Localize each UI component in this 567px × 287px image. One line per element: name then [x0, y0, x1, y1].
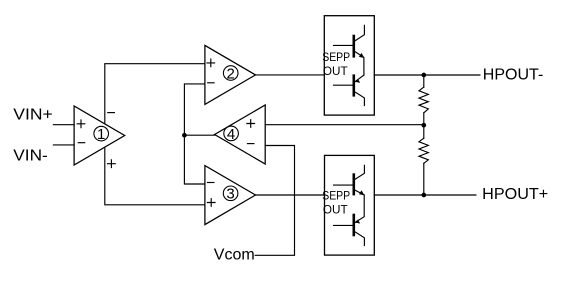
circled number 2 circle: [223, 66, 238, 81]
transistor Q3 collector: [355, 165, 365, 179]
transistor Q4 emitter: [355, 195, 364, 222]
transistor Q2 collector: [355, 92, 365, 106]
wire amp1 negative output to amp2 + input: [105, 64, 205, 124]
amp1 input - marker: [78, 142, 86, 144]
amp3 input - marker: [207, 182, 215, 184]
transistor Q2 (PNP, top box) base bar: [352, 76, 355, 96]
svg-text:1: 1: [97, 126, 105, 143]
Q3 emitter arrow: [359, 190, 364, 195]
junction node at feedback divider top: [421, 73, 426, 78]
transistor Q3 base lead: [334, 184, 353, 186]
amp4 input + marker: [246, 119, 255, 128]
svg-text:OUT: OUT: [323, 203, 348, 217]
svg-text:Vcom: Vcom: [214, 246, 255, 263]
wire bottom SEPP box output to HPOUT+: [374, 194, 476, 196]
amp2 input - marker: [207, 82, 215, 84]
resistor R2: [419, 138, 428, 163]
wire amp2 output to top SEPP box: [256, 74, 325, 76]
svg-text:OUT: OUT: [323, 64, 348, 78]
junction node at amp4 output: [182, 133, 187, 138]
amp1 output + polarity label: [107, 159, 116, 168]
wire amp3 output to bottom SEPP box: [256, 194, 325, 196]
resistor R1: [419, 87, 428, 113]
svg-text:4: 4: [227, 126, 235, 143]
Q2 emitter arrow: [355, 79, 360, 83]
transistor Q4 (PNP, bottom box) base bar: [352, 215, 355, 235]
Q1 emitter arrow: [359, 53, 364, 58]
transistor Q1 (NPN, top box) base bar: [352, 36, 355, 56]
transistor Q3 emitter: [355, 190, 364, 195]
svg-text:2: 2: [227, 65, 235, 82]
amp3 input + marker: [207, 198, 216, 207]
amp2 input + marker: [206, 59, 215, 68]
transistor Q2 emitter: [355, 75, 364, 82]
wire R2 bottom lead: [423, 163, 425, 195]
wire top SEPP box output to HPOUT-: [374, 74, 480, 76]
wire amp4 + input to resistor midpoint: [265, 124, 424, 126]
circled number 3 circle: [223, 186, 238, 201]
SEPP OUT block 2 box: [325, 155, 375, 255]
wire VIN- lead: [53, 144, 74, 146]
svg-text:3: 3: [226, 186, 234, 203]
transistor Q4 base lead: [334, 224, 353, 226]
op-amp U3 triangle: [205, 166, 256, 225]
svg-text:SEPP: SEPP: [322, 50, 350, 64]
transistor Q1 base lead: [334, 44, 353, 46]
amp1 input + marker: [77, 119, 86, 128]
op-amp U1 triangle: [74, 106, 125, 165]
transistor Q1 emitter: [355, 52, 364, 76]
wire amp1 positive output to amp3 + input: [105, 147, 205, 205]
circled number 1 circle: [94, 126, 109, 141]
amp1 output - polarity label: [107, 112, 115, 114]
wire VIN+ lead: [53, 124, 74, 126]
Q4 emitter arrow: [355, 220, 360, 224]
wire feedback node vertical with amp2 - and amp3 - leads: [184, 84, 205, 184]
svg-text:HPOUT-: HPOUT-: [483, 67, 544, 84]
transistor Q1 collector: [355, 25, 365, 41]
circled number 4 circle: [224, 126, 239, 141]
wire amp4 output to feedback node: [184, 134, 214, 136]
transistor Q4 collector: [355, 232, 365, 246]
junction node at divider bottom: [421, 193, 426, 198]
svg-text:VIN-: VIN-: [13, 147, 48, 164]
junction node at divider midpoint: [421, 123, 426, 128]
svg-text:SEPP: SEPP: [322, 189, 350, 203]
wire resistor chain top lead: [423, 75, 425, 87]
wire between R1 and midpoint node: [423, 113, 425, 138]
SEPP OUT block 1 box: [324, 16, 374, 115]
op-amp U2 triangle: [205, 45, 256, 104]
svg-text:VIN+: VIN+: [13, 107, 53, 124]
transistor Q2 base lead: [334, 84, 353, 86]
svg-text:HPOUT+: HPOUT+: [482, 186, 548, 203]
amp4 input - marker: [247, 143, 255, 145]
wire amp4 - input to Vcom: [255, 146, 294, 256]
op-amp U4 triangle (pointing left): [215, 105, 266, 164]
transistor Q3 (NPN, bottom box) base bar: [352, 175, 355, 195]
